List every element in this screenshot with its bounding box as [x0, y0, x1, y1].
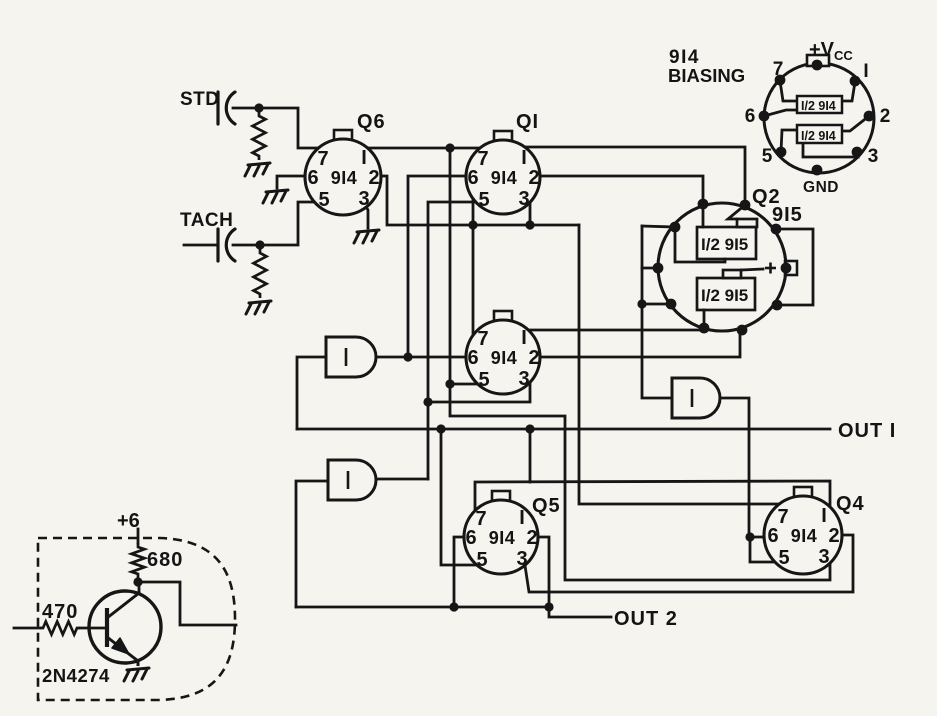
svg-text:5: 5: [478, 189, 489, 211]
wire U3 pin1 to Q2 bottom-left: [521, 329, 704, 332]
svg-text:I/2 9I4: I/2 9I4: [801, 129, 836, 143]
svg-text:3: 3: [518, 188, 529, 210]
svg-text:7: 7: [777, 506, 788, 528]
wire OUT1 to gate1 input: [297, 357, 334, 429]
wire Q2 left bracket x642: [642, 226, 672, 398]
wire OUT 2 stub: [549, 607, 611, 617]
wire Q2 int: box2 notch to tab: [741, 269, 763, 270]
svg-text:OUT 2: OUT 2: [614, 608, 678, 630]
svg-text:2: 2: [526, 527, 537, 549]
svg-text:7: 7: [475, 508, 486, 530]
wire gate3 output to Q4 pin6: [720, 398, 749, 537]
wire U3 pin5 wire: [450, 383, 485, 386]
wire tach junction to Q6 pin5: [260, 202, 328, 245]
node bias GND: [812, 165, 823, 176]
svg-text:3: 3: [358, 188, 369, 210]
svg-text:2: 2: [880, 106, 891, 127]
wire Q1 pin6 to gate1 output node: [408, 176, 474, 357]
svg-text:2: 2: [828, 525, 839, 547]
element Q2 half-1 box: [697, 219, 757, 259]
svg-text:6: 6: [307, 167, 318, 189]
wire Q2 bracket to pin edge mid: [642, 267, 659, 270]
resistor R680: [132, 543, 145, 578]
svg-text:3: 3: [518, 368, 529, 390]
wire Q5 pin3 to Q4 pin2 (y592): [524, 535, 853, 592]
svg-text:2: 2: [528, 347, 539, 369]
element bias half-2 box: [797, 125, 842, 143]
svg-text:6: 6: [745, 106, 756, 127]
wire U3 pin2 to Q2 bottom-right: [533, 330, 740, 357]
svg-text:2N4274: 2N4274: [42, 665, 110, 686]
svg-text:TACH: TACH: [180, 210, 233, 231]
wire base lead-in: [14, 627, 40, 630]
svg-text:5: 5: [762, 146, 773, 167]
wire bias pin1 to box1: [842, 82, 855, 101]
svg-text:7: 7: [773, 59, 784, 80]
ground gnd at Q6 pin6: [263, 190, 288, 203]
node node Q2 bracket: [637, 299, 646, 308]
wire Q2 int: top-left pin to box1: [702, 204, 705, 227]
wire +6 to R680: [137, 529, 140, 543]
ground gnd under R-std: [245, 163, 270, 176]
wire Q1 pin5 left-down bus x428: [428, 202, 478, 479]
node tach junction: [255, 240, 264, 249]
svg-text:9I4: 9I4: [491, 168, 518, 188]
node std junction: [254, 103, 263, 112]
node bias pin6: [759, 111, 770, 122]
wire Q5 pin7 bracket / long y481 line: [475, 481, 830, 516]
node node OUT2/Q5 pin6: [449, 602, 458, 611]
wire U3 pin3 to node x428: [428, 378, 530, 402]
svg-text:5: 5: [778, 547, 789, 569]
node node U3 pin5: [445, 379, 454, 388]
svg-text:5: 5: [318, 189, 329, 211]
wire std junction to Q6 pin7: [259, 108, 330, 148]
svg-text:6: 6: [465, 527, 476, 549]
node node OUT2/Q5 pin2: [544, 602, 553, 611]
transistor-can Q4 (uL914 dual gate, TO-5 top view): [764, 487, 842, 574]
wire Q2 bracket to pin edge low: [642, 303, 671, 306]
node node collector: [133, 577, 142, 586]
wire Q6 pin2 down-right bus (y225): [380, 176, 579, 225]
transistor-can Q2 (uL915, TO-5 top view): [658, 203, 786, 331]
wire Q2 right rectangle: [776, 229, 813, 305]
svg-text:GND: GND: [803, 179, 839, 196]
gate gate2 (buffer): [328, 460, 376, 500]
node bias pin2: [864, 111, 875, 122]
transistor-can Q5 (uL914 dual gate, TO-5 top view): [464, 491, 538, 574]
wire bias pin7 to box1: [780, 81, 797, 101]
node bias pin3: [852, 147, 863, 158]
resistor R-std: [253, 112, 266, 160]
svg-text:5: 5: [478, 369, 489, 391]
wire bias pin6 to box1: [764, 110, 797, 116]
svg-text:680: 680: [147, 549, 183, 571]
wire gate2 output up to node y402: [376, 478, 428, 481]
node Q2 pin j: [781, 263, 792, 274]
node Q2 pin a: [698, 199, 709, 210]
gate gate1 (buffer): [326, 337, 376, 377]
node bias pin1: [850, 76, 861, 87]
svg-text:Q4: Q4: [836, 493, 865, 515]
wire Q1 pin1 to Q2 top-right: [517, 147, 745, 203]
svg-text:6: 6: [467, 347, 478, 369]
transistor Q7 2N4274: [89, 591, 161, 666]
wire tach cap to junction: [233, 244, 260, 247]
wire output stub: [138, 582, 236, 625]
svg-text:9I4: 9I4: [791, 526, 818, 546]
svg-text:9I4: 9I4: [331, 168, 358, 188]
ground gnd at emitter: [124, 668, 149, 681]
svg-text:I/2 9I5: I/2 9I5: [701, 235, 748, 254]
element Q2 polarity plus: [765, 263, 776, 274]
wire bias pin5 to box2: [781, 130, 797, 152]
node node OUT1/Q5 pin5: [436, 424, 445, 433]
svg-text:+6: +6: [117, 510, 140, 532]
svg-text:3: 3: [868, 146, 879, 167]
node bias pin7: [775, 75, 786, 86]
node node gate1 output: [403, 352, 412, 361]
wire OUT 2 line: [296, 606, 549, 609]
ground gnd at Q6 pin3: [354, 230, 379, 243]
wire OUT1 dot down to Q5 pin5: [441, 429, 482, 565]
svg-text:7: 7: [477, 148, 488, 170]
svg-text:I: I: [821, 505, 827, 527]
wire y225 corner down x579: [579, 225, 786, 504]
svg-text:9I5: 9I5: [772, 204, 803, 226]
svg-text:2: 2: [528, 167, 539, 189]
node bias Vcc: [812, 60, 823, 71]
wire collector link: [138, 582, 141, 592]
svg-text:I/2 9I5: I/2 9I5: [701, 286, 748, 305]
node bias pin5: [776, 147, 787, 158]
wire Q1 pin5 edge down to y225: [472, 195, 475, 225]
svg-text:2: 2: [368, 167, 379, 189]
wire OUT 1 line: [297, 428, 830, 431]
wire Q1 pin2 to Q2 top-left: [532, 176, 703, 202]
svg-text:QI: QI: [516, 111, 539, 133]
capacitor C-tach: [218, 229, 235, 261]
wire tach lead-in: [184, 244, 216, 247]
wire Q5 pin6 to OUT2: [454, 537, 470, 607]
svg-text:I: I: [521, 147, 527, 169]
node node OUT1/Q5 pin7: [525, 424, 534, 433]
wire Q4 pin5 hook: [750, 537, 784, 562]
wire Q2 int: box2 bottom to bottom pin: [703, 310, 706, 327]
node Q2 pin d: [653, 263, 664, 274]
svg-text:Q6: Q6: [357, 111, 386, 133]
transistor-can Q1 (uL914 dual gate, TO-5 top view): [466, 131, 540, 214]
wire Q4 pin6 wire: [750, 536, 772, 539]
svg-text:3: 3: [818, 546, 829, 568]
svg-text:OUT I: OUT I: [838, 420, 896, 442]
wire gate1 output to U3 pin6: [376, 356, 472, 359]
wire bus x450 H1 to U3 pin5 node: [450, 148, 830, 580]
svg-text:6: 6: [467, 167, 478, 189]
node junction H1/x450: [445, 143, 454, 152]
transistor-can U3 (uL914 dual gate, TO-5 top view): [466, 311, 540, 394]
node node x428/y402: [423, 397, 432, 406]
wire bias pin2 to box2: [842, 116, 869, 131]
node junction y225/Q1pin5: [468, 220, 477, 229]
gate gate3 (buffer): [672, 378, 720, 418]
wire Q1 pin3 edge down to y225: [529, 197, 532, 225]
svg-text:9I4: 9I4: [491, 348, 518, 368]
svg-text:7: 7: [477, 328, 488, 350]
wire base lead: [80, 627, 106, 630]
wire bias box2 to pin3: [803, 143, 858, 157]
element bias tab: [807, 55, 829, 66]
node Q2 pin e: [666, 299, 677, 310]
element dashed enclosure: [38, 538, 235, 700]
wire OUT2 to gate2 input: [296, 481, 336, 607]
wire OUT1 dot down to y482: [529, 429, 532, 482]
svg-text:9I4: 9I4: [489, 528, 516, 548]
node Q2 pin f: [699, 323, 710, 334]
wire Q6 pin3 to ground: [357, 192, 368, 228]
ground gnd under R-tach: [246, 301, 271, 314]
element bias half-1 box: [797, 96, 842, 113]
svg-text:5: 5: [476, 549, 487, 571]
svg-text:3: 3: [516, 548, 527, 570]
svg-text:I: I: [521, 327, 527, 349]
svg-text:STD: STD: [180, 89, 220, 110]
svg-text:I: I: [863, 61, 868, 82]
element Q2 tab: [785, 261, 797, 275]
node Q2 pin b: [740, 200, 751, 211]
wire Q2 int: left pin to box1 bottom: [675, 227, 725, 262]
node Q2 pin i: [771, 224, 782, 235]
element Q2 half-2 box: [697, 270, 755, 310]
wire Q2 int: top-right pin to box1 notch: [728, 205, 745, 219]
svg-text:Q5: Q5: [532, 495, 561, 517]
resistor R-tach: [254, 249, 267, 298]
svg-text:I: I: [361, 147, 367, 169]
wire Q6 pin6 to ground: [277, 176, 316, 188]
transistor-can Q6 (uL914 dual gate, TO-5 top view): [305, 130, 381, 215]
svg-text:BIASING: BIASING: [668, 65, 745, 86]
svg-text:I/2 9I4: I/2 9I4: [801, 99, 836, 113]
capacitor C-std: [218, 92, 235, 124]
node Q2 pin g: [737, 325, 748, 336]
wire Q6 pin1 to Q1 pin7 (H1): [360, 147, 488, 150]
resistor R470: [40, 622, 80, 635]
svg-text:I: I: [519, 507, 525, 529]
node Q2 pin c: [670, 222, 681, 233]
wire Q2 bracket to pin edge top: [642, 226, 675, 227]
wire y225 down to U3 top (x473): [472, 225, 475, 342]
svg-text:6: 6: [767, 525, 778, 547]
node node Q4 pin6: [745, 532, 754, 541]
wire Q5 pin2 to OUT2: [532, 537, 549, 607]
svg-text:7: 7: [317, 148, 328, 170]
svg-text:470: 470: [42, 601, 78, 623]
transistor-can U-bias (914 biasing detail): [764, 63, 874, 173]
node junction y225/Q1pin3: [525, 220, 534, 229]
wire std cap to junction: [233, 107, 259, 110]
node Q2 pin h: [772, 300, 783, 311]
